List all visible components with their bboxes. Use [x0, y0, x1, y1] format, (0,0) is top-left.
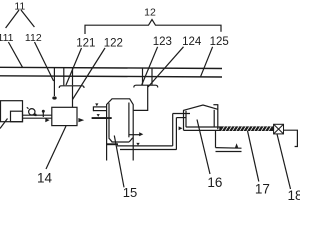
- dryer 16 floor / trough top: [186, 126, 274, 128]
- riser right line: [175, 118, 177, 150]
- leader 123: [142, 47, 158, 85]
- leader 18: [277, 134, 291, 189]
- valve stem on pipe: [42, 112, 44, 117]
- dryer 16 right outer wall: [217, 105, 219, 130]
- tank inlet stub upper top: [93, 106, 106, 108]
- rotary valve 18 box: [274, 124, 284, 134]
- svg-text:125: 125: [210, 36, 229, 48]
- svg-text:111: 111: [0, 32, 14, 44]
- tank 15 inner left wall: [108, 103, 110, 138]
- duct tap end dot: [52, 96, 56, 99]
- bell mouth 2 flare: [134, 85, 158, 87]
- riser top upper line: [173, 113, 190, 115]
- bell mouth 2 right pipe: [151, 68, 153, 85]
- leader 17: [247, 129, 259, 182]
- valve outlet line: [284, 130, 298, 146]
- tank right stub arrowhead: [139, 132, 143, 136]
- leader 112: [35, 42, 54, 81]
- dryer 16 vent cap: [213, 104, 218, 106]
- arrow onto tank bottom pipe: [136, 143, 139, 146]
- transfer pipe top line: [23, 114, 52, 116]
- dryer 16 lid: [183, 105, 218, 110]
- tank bottom pipe bottom line: [120, 149, 176, 151]
- riser left line: [172, 114, 174, 146]
- feeder inner box: [11, 111, 23, 122]
- arrow into dryer bottom: [179, 126, 183, 130]
- label 11 fork left line: [6, 10, 19, 28]
- mixer box 14: [52, 107, 77, 125]
- tank hopper outlet thick bar: [107, 143, 118, 145]
- arrow onto lower tank stub: [97, 114, 100, 117]
- arrow into box 14: [45, 118, 49, 122]
- feeder box 13: [1, 101, 23, 122]
- leader 121: [66, 48, 82, 85]
- tank inlet stub upper cap: [92, 106, 94, 111]
- riser top lower line: [176, 117, 186, 119]
- tank 15 hopper left slope: [109, 138, 112, 142]
- pump symbol: [29, 109, 35, 115]
- leader 13: [0, 119, 8, 129]
- tank bottom pipe top line: [117, 145, 173, 147]
- arrow at discharge pipe end: [235, 143, 238, 147]
- dryer 16 left outer wall: [183, 110, 185, 130]
- screw conveyor 17 hatched band: [219, 127, 273, 131]
- lower tank stub thick bar: [92, 117, 112, 119]
- main duct 11 bottom line: [0, 76, 222, 77]
- svg-text:122: 122: [104, 38, 123, 50]
- svg-text:112: 112: [25, 32, 42, 44]
- label 11 fork right line: [21, 10, 34, 27]
- tank inlet stub upper bottom: [93, 110, 106, 112]
- arrow onto upper tank stub: [95, 103, 98, 106]
- tank right stub line: [129, 134, 140, 136]
- svg-text:123: 123: [153, 36, 172, 48]
- leader 111: [8, 42, 22, 67]
- arrow out of box 14: [78, 118, 84, 122]
- rotary valve 18 X diagonal 1: [274, 124, 284, 134]
- bell mouth 1 right pipe: [72, 68, 74, 86]
- svg-text:12: 12: [144, 6, 156, 18]
- dryer 16 outer bottom / trough bottom: [184, 129, 274, 131]
- pump dot: [34, 114, 37, 117]
- leader 125: [201, 47, 213, 77]
- tank 15 hopper right slope: [129, 138, 133, 142]
- svg-text:121: 121: [76, 38, 95, 50]
- bell mouth 1 flare: [59, 86, 84, 88]
- dryer 16 left inner wall: [185, 111, 187, 127]
- bell mouth 1 left pipe: [63, 68, 65, 86]
- main duct 11 top line: [0, 67, 222, 68]
- bell mouth 2 left pipe: [142, 68, 144, 85]
- leader 122: [73, 48, 106, 100]
- rotary valve 18 X diagonal 2: [274, 124, 284, 134]
- valve stem dot: [42, 110, 45, 113]
- svg-text:18: 18: [287, 188, 300, 200]
- dryer discharge drop: [215, 130, 217, 147]
- leader 15: [114, 136, 124, 188]
- dryer 16 right inner wall: [213, 110, 215, 127]
- tank 15 hopper flat bottom: [112, 141, 130, 143]
- leader 14: [46, 126, 66, 169]
- leader 16: [197, 120, 210, 175]
- discharge pipe bottom line: [216, 151, 242, 153]
- svg-text:14: 14: [37, 171, 53, 186]
- tank 15 shell: [107, 99, 134, 161]
- svg-text:15: 15: [123, 185, 137, 200]
- tank 15 inner right wall: [128, 103, 130, 138]
- svg-text:17: 17: [255, 181, 270, 196]
- drop pipe to tank 15: [134, 86, 148, 111]
- transfer pipe bottom line: [23, 117, 52, 119]
- brace 12: [85, 20, 221, 35]
- svg-text:124: 124: [182, 36, 202, 48]
- svg-text:16: 16: [207, 175, 222, 190]
- svg-text:11: 11: [14, 0, 25, 12]
- leader 124: [148, 47, 184, 87]
- duct tap arrow line: [53, 68, 55, 97]
- discharge pipe top line: [216, 147, 242, 150]
- drop pipe to box 14: [72, 86, 74, 107]
